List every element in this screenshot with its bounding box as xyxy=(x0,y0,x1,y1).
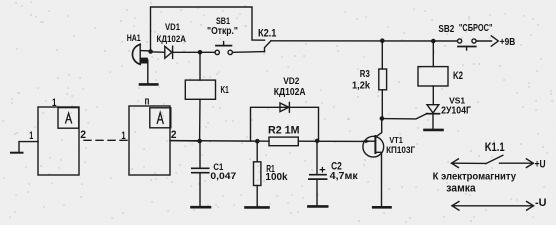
svg-text:VD1: VD1 xyxy=(165,22,181,33)
svg-text:К2.1: К2.1 xyxy=(258,28,276,40)
svg-text:+: + xyxy=(319,165,326,177)
svg-text:+9В: +9В xyxy=(500,36,516,48)
svg-text:-U: -U xyxy=(535,197,547,209)
svg-text:КД102А: КД102А xyxy=(274,87,306,98)
svg-text:VS1: VS1 xyxy=(449,96,465,106)
svg-text:+U: +U xyxy=(535,159,546,171)
svg-text:2: 2 xyxy=(80,129,86,141)
svg-text:2: 2 xyxy=(171,129,177,141)
svg-text:HA1: HA1 xyxy=(127,33,141,43)
svg-text:КП103Г: КП103Г xyxy=(386,145,416,155)
svg-text:"Откр.": "Откр." xyxy=(207,25,238,37)
svg-text:замка: замка xyxy=(446,183,476,195)
svg-text:100k: 100k xyxy=(265,172,288,183)
svg-text:VT1: VT1 xyxy=(389,135,403,145)
svg-text:SB2: SB2 xyxy=(438,24,454,35)
svg-text:1: 1 xyxy=(29,130,33,142)
svg-text:R3: R3 xyxy=(360,69,370,80)
svg-text:1,2k: 1,2k xyxy=(352,81,370,92)
svg-text:VD2: VD2 xyxy=(283,76,299,86)
svg-text:0,047: 0,047 xyxy=(210,171,236,182)
svg-text:1: 1 xyxy=(121,130,125,142)
svg-text:"СБРОС": "СБРОС" xyxy=(459,23,493,34)
svg-text:К электромагниту: К электромагниту xyxy=(433,171,517,182)
svg-text:1: 1 xyxy=(52,97,57,109)
svg-text:4,7мк: 4,7мк xyxy=(330,171,359,182)
svg-text:R2 1М: R2 1М xyxy=(268,125,300,137)
svg-text:K1: K1 xyxy=(221,85,230,96)
svg-text:K1.1: K1.1 xyxy=(485,140,505,154)
svg-text:КД102А: КД102А xyxy=(157,34,187,45)
svg-text:2У104Г: 2У104Г xyxy=(441,106,471,117)
svg-text:K2: K2 xyxy=(453,70,463,82)
svg-text:п: п xyxy=(145,96,150,108)
